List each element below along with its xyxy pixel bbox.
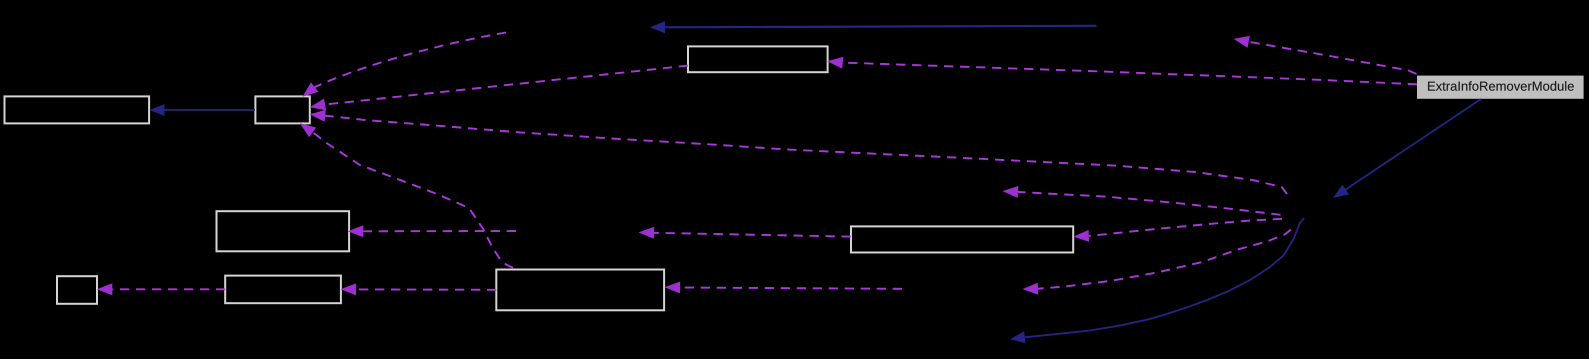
dashed edge D6: bottom box5 S-curve up to small box2	[313, 132, 513, 267]
dashed edge D10: hidden hub to hidden mid node	[1018, 192, 1281, 215]
node box6 (bottom small)	[57, 276, 97, 304]
node box2 (small, hidden label)	[255, 96, 309, 123]
blue edge B4: hidden hub sweeping to bottom hidden node	[1025, 218, 1304, 337]
node box1 (left, hidden label)	[5, 96, 150, 123]
blue edge B1: box2 to box1	[165, 109, 256, 111]
node box4 (mid-right, hidden label)	[851, 226, 1073, 252]
dashed edge D1: ExtraInfoRemoverModule to hidden top node	[1249, 42, 1417, 74]
dashed edge D14: box5 to box7	[356, 288, 496, 290]
dashed edge D2: ExtraInfoRemoverModule to top box	[843, 63, 1417, 85]
dashed edge D8: box4 to hidden label	[654, 233, 851, 237]
dashed edge D4: top box to small box2	[325, 66, 688, 105]
dashed edge D7: hidden label to box3	[363, 230, 516, 232]
dashed edge D13: box7 to box6	[112, 288, 225, 290]
node ExtraInfoRemoverModule (highlighted)	[1417, 76, 1584, 99]
dashed edge D9: hidden hub to box4	[1089, 219, 1282, 236]
blue edge B2: hidden node to hidden node (top)	[665, 26, 1097, 28]
blue edge B3: ExtraInfoRemoverModule down to hidden hub	[1346, 99, 1481, 190]
node box3 (mid-left two-line)	[217, 211, 350, 251]
dashed edge D12: hidden hub curving to hidden label	[1038, 230, 1291, 289]
node box5 (bottom-centre two-line)	[496, 270, 664, 311]
node box7 (bottom, hidden label)	[225, 276, 341, 304]
dashed edge D5: hidden hub long arc to small box2	[325, 116, 1287, 194]
node boxtop (top centre, hidden label)	[688, 46, 828, 72]
dashed edge D11: hidden label to box5	[680, 288, 902, 289]
dashed edge D3: hidden top node down to small box2	[315, 33, 506, 88]
